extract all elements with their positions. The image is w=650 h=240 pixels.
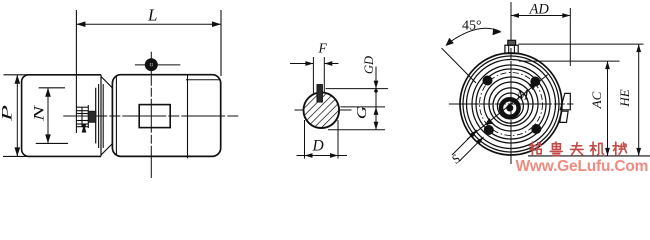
watermark chinese characters [529, 142, 626, 155]
char ge [529, 142, 541, 155]
key section dark [88, 111, 96, 122]
G extension top [340, 106, 385, 108]
bolt hole SE [531, 124, 541, 134]
45 degree arc [447, 28, 501, 44]
HE dimension line [638, 44, 640, 156]
char lu [550, 142, 562, 155]
svg-text:M: M [516, 88, 530, 104]
body inner right vertical [187, 75, 189, 159]
G extension bottom [328, 129, 385, 131]
svg-text:L: L [147, 5, 157, 24]
M dimension diagonal [467, 75, 548, 140]
D extension line left [304, 120, 306, 159]
flange plate line b [98, 84, 100, 148]
AC top extension [519, 60, 620, 62]
45 degree diagonal line [442, 48, 477, 83]
GD dot [374, 89, 378, 93]
char xie [613, 142, 627, 155]
svg-text:D: D [312, 138, 324, 155]
fan cowl outline [22, 75, 101, 157]
horizontal centerline [449, 103, 574, 105]
svg-text:45°: 45° [462, 19, 482, 34]
dimension N line with arrows [47, 88, 49, 144]
cone diagonal top [101, 77, 113, 89]
dimension N extension top [39, 87, 65, 89]
S dimension line 2 [459, 137, 484, 162]
pitch circle dash-dot [480, 73, 543, 136]
bolt hole NE [530, 77, 540, 87]
dimension N extension bottom [36, 142, 68, 144]
svg-text:P: P [0, 105, 15, 122]
terminal box lower tab [560, 111, 568, 122]
AD right extension [569, 8, 571, 66]
cowl right face line [100, 75, 102, 157]
eyebolt box front [505, 45, 518, 53]
AD dimension line [511, 15, 570, 17]
shaft circle hatched [304, 92, 340, 128]
G dimension line [375, 89, 377, 107]
horizontal centerline [63, 115, 239, 117]
char fu [571, 142, 584, 155]
dimension P extension bottom [3, 155, 40, 157]
shaft section centerline [295, 109, 352, 111]
svg-text:F: F [318, 41, 328, 56]
vertical centerline [510, 2, 512, 166]
eyebolt ring [145, 59, 157, 71]
svg-text:Www.GeLufu.Com: Www.GeLufu.Com [516, 158, 649, 175]
dimension L extension line left [75, 10, 77, 133]
eyebolt boss line [135, 64, 180, 66]
flange plate line c [102, 84, 104, 148]
small key arrow [83, 125, 85, 132]
svg-text:N: N [31, 105, 47, 123]
concentric circles [460, 53, 562, 155]
D dimension line [305, 155, 339, 157]
shaft step horizontals [76, 107, 88, 127]
D extension line right [337, 120, 339, 159]
bolt hole SW [484, 125, 494, 135]
F extension line right [323, 57, 325, 93]
motor body outline [112, 75, 220, 157]
dimension L extension line right [220, 10, 222, 76]
S dimension line 1 [452, 130, 477, 155]
svg-text:HE: HE [617, 89, 632, 107]
body inner left edge [115, 77, 117, 155]
bolt hole NW [483, 76, 493, 86]
char ji [590, 142, 603, 155]
shaft step verticals [82, 105, 88, 128]
baseline extension [528, 155, 650, 157]
flange plate line a [95, 88, 97, 144]
terminal box side [560, 93, 570, 109]
eyebolt cap front [508, 40, 516, 45]
dimension P line with arrows [16, 75, 18, 157]
dimension L line with arrows [76, 23, 221, 25]
cone diagonal bottom [101, 144, 113, 156]
vertical centerline [150, 52, 152, 178]
body top inner line [186, 79, 221, 81]
hub rings [501, 99, 519, 117]
dimension P extension top [4, 74, 41, 76]
F extension line left [312, 57, 314, 93]
svg-text:G: G [355, 105, 369, 119]
svg-text:AD: AD [529, 1, 550, 17]
GD extension line [326, 88, 388, 90]
nameplate square [139, 105, 170, 128]
F dimension arrows [290, 63, 313, 65]
HE top extension [519, 43, 644, 45]
svg-text:AC: AC [589, 91, 604, 109]
AC dimension line [607, 61, 609, 156]
GD arrow [375, 67, 377, 89]
key [317, 85, 322, 102]
svg-text:GD: GD [362, 56, 376, 74]
